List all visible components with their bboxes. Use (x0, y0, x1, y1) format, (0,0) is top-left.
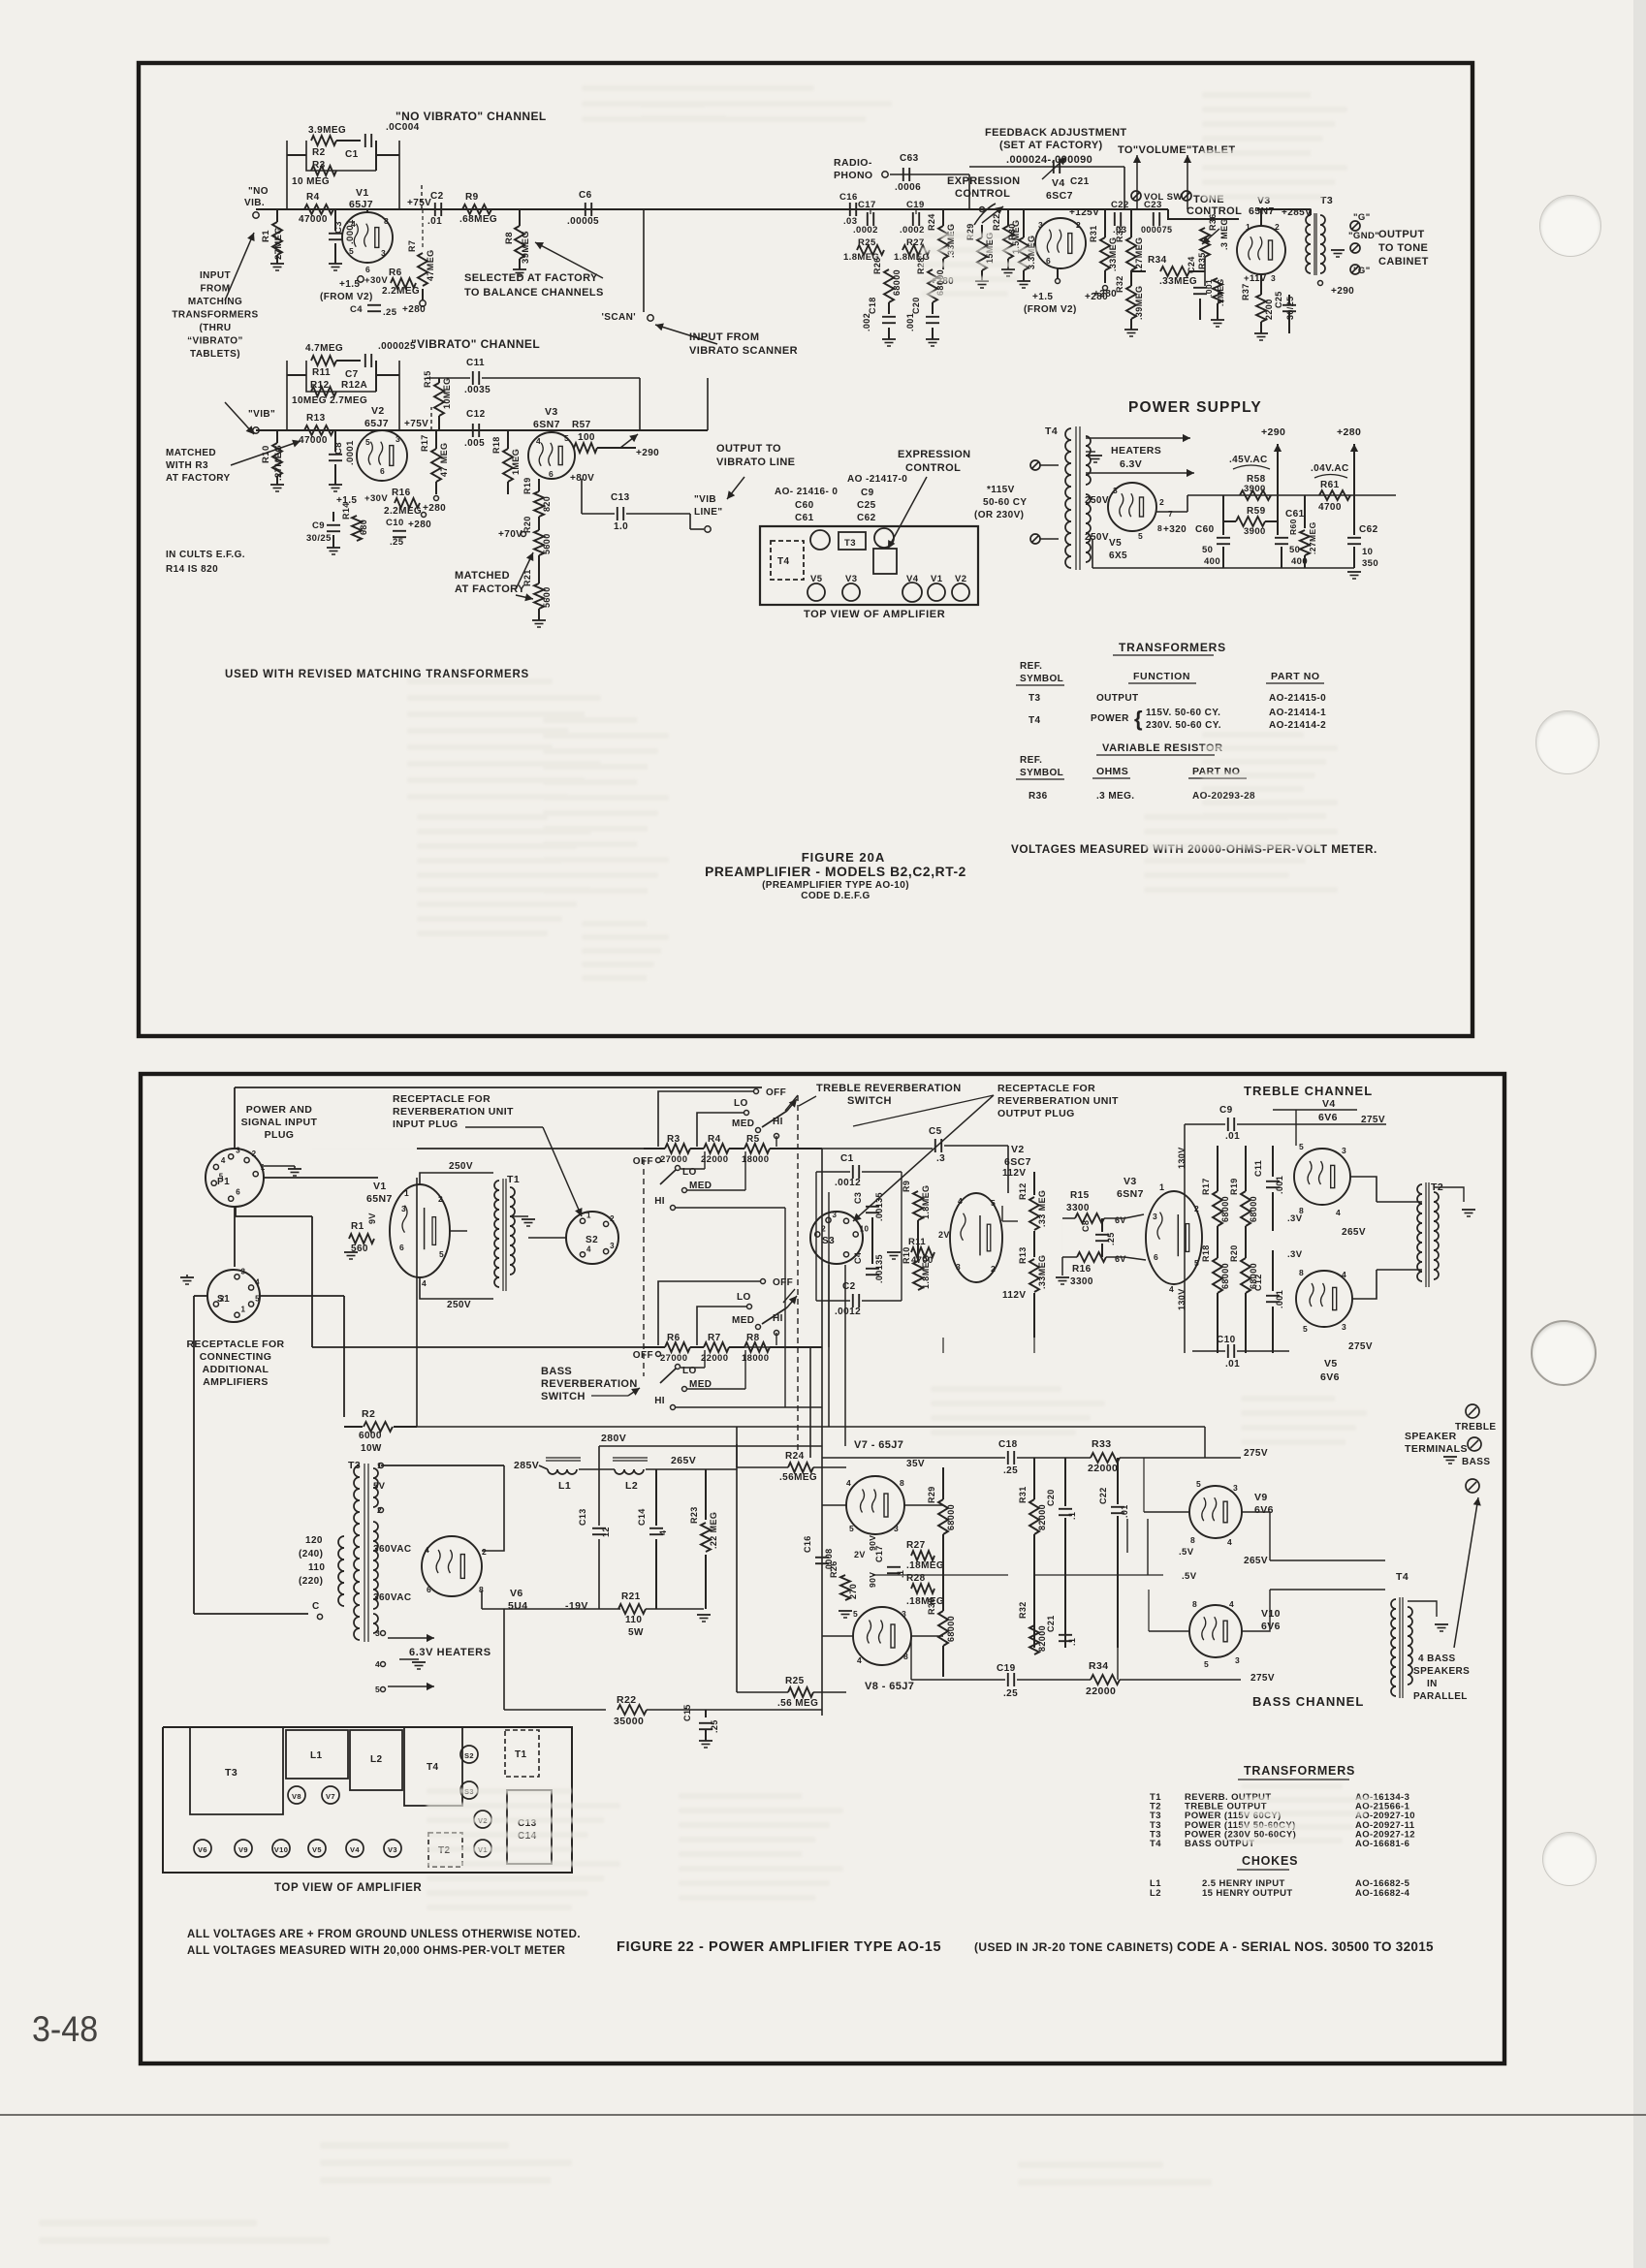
svg-text:265V: 265V (671, 1455, 696, 1466)
svg-text:C20: C20 (1046, 1489, 1056, 1506)
svg-text:C3: C3 (853, 1192, 863, 1204)
svg-text:L1: L1 (310, 1750, 323, 1761)
svg-text:.00135: .00135 (874, 1254, 884, 1283)
svg-text:.25: .25 (383, 307, 397, 318)
svg-text:R10: R10 (261, 445, 271, 463)
svg-text:.1: .1 (1067, 1512, 1077, 1520)
svg-text:V2: V2 (371, 405, 385, 417)
svg-text:V3: V3 (1124, 1176, 1137, 1187)
svg-text:4 BASS: 4 BASS (1418, 1654, 1456, 1664)
svg-text:R20: R20 (1229, 1244, 1239, 1262)
svg-text:1: 1 (241, 1306, 246, 1314)
svg-text:C61: C61 (795, 513, 814, 523)
svg-text:(USED IN JR-20 TONE CABINETS): (USED IN JR-20 TONE CABINETS) (974, 1940, 1173, 1954)
svg-text:8: 8 (1192, 1599, 1197, 1609)
svg-text:.56 MEG: .56 MEG (777, 1698, 818, 1709)
svg-text:C1: C1 (840, 1153, 854, 1164)
svg-text:22000: 22000 (701, 1154, 728, 1165)
svg-text:C13: C13 (578, 1508, 587, 1526)
svg-text:'SCAN': 'SCAN' (602, 312, 637, 323)
svg-text:PREAMPLIFIER - MODELS B2,C2: PREAMPLIFIER - MODELS B2,C2,RT-2 (705, 865, 966, 879)
svg-text:5: 5 (1303, 1324, 1308, 1334)
svg-text:R31: R31 (1089, 225, 1098, 242)
svg-text:5: 5 (349, 246, 354, 256)
svg-text:68000: 68000 (1220, 1196, 1230, 1222)
svg-text:R34: R34 (1089, 1660, 1108, 1672)
svg-text:5: 5 (1196, 1479, 1201, 1489)
svg-text:65J7: 65J7 (349, 199, 373, 210)
svg-text:5: 5 (564, 433, 569, 443)
svg-text:R36: R36 (1208, 213, 1218, 231)
svg-text:C5: C5 (929, 1126, 942, 1137)
svg-text:8: 8 (1299, 1268, 1304, 1277)
svg-text:3: 3 (401, 1204, 406, 1213)
svg-text:V9: V9 (1254, 1492, 1268, 1503)
svg-text:3900: 3900 (1244, 526, 1266, 537)
svg-text:3: 3 (610, 1242, 615, 1250)
svg-text:FUNCTION: FUNCTION (1133, 671, 1190, 682)
svg-text:CHOKES: CHOKES (1242, 1854, 1298, 1868)
svg-text:4: 4 (586, 1244, 591, 1253)
svg-text:R61: R61 (1320, 480, 1340, 490)
svg-text:50: 50 (1202, 545, 1213, 555)
svg-text:1: 1 (1246, 222, 1250, 232)
svg-text:TO BALANCE CHANNELS: TO BALANCE CHANNELS (464, 287, 604, 299)
svg-text:SWITCH: SWITCH (541, 1391, 586, 1402)
svg-text:TREBLE: TREBLE (1455, 1422, 1496, 1433)
svg-text:3: 3 (236, 1146, 240, 1154)
svg-text:C10: C10 (386, 518, 404, 528)
svg-text:68000: 68000 (1249, 1196, 1258, 1222)
svg-text:"VIBRATO" CHANNEL: "VIBRATO" CHANNEL (411, 337, 540, 351)
svg-text:V3: V3 (388, 1845, 397, 1854)
svg-text:R20: R20 (522, 516, 532, 533)
svg-text:R6: R6 (667, 1333, 681, 1343)
svg-text:"GND": "GND" (1348, 231, 1379, 241)
svg-text:C63: C63 (900, 153, 919, 164)
svg-text:5V: 5V (373, 1481, 386, 1492)
svg-text:RECEPTACLE FOR: RECEPTACLE FOR (393, 1093, 491, 1105)
svg-text:"VIB": "VIB" (248, 409, 275, 420)
svg-text:1: 1 (404, 1188, 409, 1198)
svg-text:R13: R13 (306, 413, 326, 424)
svg-text:TRANSFORMERS: TRANSFORMERS (172, 310, 258, 321)
svg-text:6: 6 (380, 466, 385, 476)
svg-text:6: 6 (549, 469, 554, 479)
svg-text:68000: 68000 (1220, 1263, 1230, 1289)
svg-text:6SC7: 6SC7 (1004, 1156, 1031, 1168)
svg-text:3300: 3300 (1066, 1203, 1090, 1213)
svg-text:35000: 35000 (614, 1716, 644, 1727)
svg-text:.001: .001 (1275, 1290, 1284, 1308)
svg-text:PLUG: PLUG (265, 1129, 295, 1141)
svg-text:REVERBERATION UNIT: REVERBERATION UNIT (393, 1106, 514, 1118)
svg-text:C1: C1 (345, 149, 359, 160)
svg-text:R13: R13 (1018, 1246, 1028, 1264)
svg-text:V4: V4 (350, 1845, 360, 1854)
svg-text:RADIO-: RADIO- (834, 157, 872, 169)
svg-text:FIGURE 22 - POWER AMPLIFIER: FIGURE 22 - POWER AMPLIFIER TYPE AO-15 (617, 1939, 941, 1955)
svg-text:3: 3 (902, 1609, 906, 1619)
svg-text:6000: 6000 (359, 1431, 382, 1441)
svg-text:3: 3 (396, 434, 400, 444)
svg-text:C20: C20 (911, 297, 921, 314)
svg-text:7: 7 (1168, 509, 1173, 519)
svg-text:275V: 275V (1361, 1115, 1385, 1125)
svg-text:RECEPTACLE FOR: RECEPTACLE FOR (186, 1339, 284, 1350)
svg-text:3: 3 (894, 1524, 899, 1533)
svg-text:820: 820 (542, 496, 552, 512)
svg-text:350: 350 (1362, 558, 1378, 569)
svg-text:8: 8 (1190, 1535, 1195, 1545)
svg-text:280V: 280V (601, 1433, 626, 1444)
svg-text:OUTPUT TO: OUTPUT TO (716, 443, 781, 455)
svg-text:6.3V HEATERS: 6.3V HEATERS (409, 1647, 491, 1658)
svg-text:V7 - 65J7: V7 - 65J7 (854, 1439, 903, 1451)
svg-text:.0002: .0002 (900, 225, 925, 236)
svg-text:PART NO: PART NO (1271, 671, 1320, 682)
svg-text:4: 4 (857, 1655, 862, 1665)
svg-text:LO: LO (734, 1098, 748, 1109)
svg-text:265V: 265V (1342, 1227, 1366, 1238)
svg-text:5: 5 (255, 1295, 260, 1304)
svg-text:30/25: 30/25 (306, 533, 332, 544)
svg-text:4: 4 (536, 436, 541, 446)
svg-text:R35: R35 (1197, 252, 1207, 269)
svg-text:R17: R17 (1201, 1178, 1211, 1195)
svg-text:3300: 3300 (1070, 1276, 1093, 1287)
svg-text:6SC7: 6SC7 (1046, 190, 1073, 202)
svg-text:10MEG: 10MEG (442, 377, 452, 409)
svg-text:R14 IS 820: R14 IS 820 (166, 564, 218, 575)
svg-text:.33MEG: .33MEG (1159, 276, 1197, 287)
svg-text:.0012: .0012 (835, 1307, 861, 1317)
svg-text:8: 8 (900, 1478, 904, 1488)
svg-text:3: 3 (1038, 220, 1043, 230)
svg-text:R60: R60 (1288, 519, 1298, 535)
svg-text:.01: .01 (1120, 1504, 1129, 1518)
svg-text:C8: C8 (1081, 1220, 1091, 1232)
svg-text:(FROM V2): (FROM V2) (320, 292, 373, 302)
svg-text:V5: V5 (1109, 538, 1122, 549)
svg-text:4: 4 (255, 1278, 260, 1287)
svg-text:.01: .01 (427, 216, 442, 227)
svg-text:V4: V4 (1052, 177, 1065, 189)
svg-text:POWER AND: POWER AND (246, 1104, 313, 1116)
svg-text:T1: T1 (507, 1174, 520, 1185)
svg-text:6: 6 (1046, 256, 1051, 266)
svg-text:R16: R16 (392, 488, 411, 498)
svg-text:3: 3 (1342, 1146, 1346, 1155)
svg-text:V3: V3 (545, 406, 558, 418)
svg-text:4700: 4700 (1318, 502, 1342, 513)
svg-text:.01: .01 (1225, 1131, 1240, 1142)
svg-text:OHMS: OHMS (1096, 766, 1128, 777)
svg-text:112V: 112V (1002, 1290, 1026, 1301)
svg-text:90V: 90V (868, 1535, 877, 1551)
svg-text:5U4: 5U4 (508, 1600, 527, 1612)
svg-text:3: 3 (1235, 1655, 1240, 1665)
svg-text:R31: R31 (1018, 1486, 1028, 1503)
svg-text:6V6: 6V6 (1318, 1112, 1338, 1123)
svg-text:270: 270 (848, 1584, 858, 1599)
svg-text:65J7: 65J7 (364, 418, 389, 429)
svg-text:(OR 230V): (OR 230V) (974, 510, 1024, 520)
svg-text:V9: V9 (238, 1845, 248, 1854)
svg-text:5: 5 (1194, 1258, 1199, 1268)
svg-text:8: 8 (903, 1652, 908, 1661)
svg-text:R25: R25 (785, 1676, 805, 1686)
svg-text:C18: C18 (868, 297, 877, 314)
svg-text:10: 10 (860, 1225, 870, 1234)
svg-text:3: 3 (1113, 486, 1118, 495)
svg-text:(PREAMPLIFIER TYPE AO-10): (PREAMPLIFIER TYPE AO-10) (762, 880, 909, 891)
svg-text:.001: .001 (1204, 279, 1214, 297)
svg-text:C2: C2 (842, 1281, 856, 1292)
svg-text:V10: V10 (1261, 1608, 1281, 1620)
svg-text:TOP VIEW OF AMPLIFIER: TOP VIEW OF AMPLIFIER (804, 609, 945, 620)
svg-text:3: 3 (1342, 1322, 1346, 1332)
svg-text:R5: R5 (746, 1134, 760, 1145)
svg-text:C22: C22 (1111, 200, 1129, 210)
svg-text:2.2MEG: 2.2MEG (384, 506, 422, 517)
svg-text:680: 680 (359, 520, 368, 535)
svg-text:OUTPUT PLUG: OUTPUT PLUG (997, 1108, 1075, 1119)
svg-text:.25: .25 (390, 537, 404, 548)
svg-text:C4: C4 (350, 304, 363, 315)
svg-text:C15: C15 (682, 1704, 692, 1721)
svg-text:AO-16681-6: AO-16681-6 (1355, 1839, 1409, 1849)
svg-text:5: 5 (853, 1609, 858, 1619)
svg-text:275V: 275V (1250, 1673, 1275, 1684)
svg-text:+11V: +11V (1244, 273, 1267, 284)
svg-text:4: 4 (1336, 1208, 1341, 1217)
svg-text:AO-21414-1: AO-21414-1 (1269, 708, 1326, 718)
svg-text:AO-16682-4: AO-16682-4 (1355, 1888, 1410, 1899)
svg-text:V1: V1 (356, 187, 369, 199)
svg-text:V5: V5 (1324, 1358, 1338, 1370)
svg-text:INPUT: INPUT (200, 270, 231, 281)
svg-text:L1: L1 (558, 1480, 571, 1492)
svg-text:6: 6 (236, 1188, 240, 1197)
svg-text:250V: 250V (1085, 532, 1109, 543)
svg-text:6V6: 6V6 (1320, 1371, 1340, 1383)
svg-text:TREBLE REVERBERATION: TREBLE REVERBERATION (816, 1083, 962, 1094)
svg-text:R18: R18 (1201, 1244, 1211, 1262)
svg-text:+280: +280 (1337, 426, 1361, 438)
svg-text:VIBRATO SCANNER: VIBRATO SCANNER (689, 345, 798, 357)
svg-text:FIGURE 20A: FIGURE 20A (802, 850, 886, 865)
svg-text:R32: R32 (1018, 1601, 1028, 1619)
svg-text:R22: R22 (992, 213, 1001, 231)
svg-text:18000: 18000 (742, 1353, 769, 1364)
svg-text:.000024-.000090: .000024-.000090 (1006, 154, 1092, 166)
svg-text:REVERBERATION UNIT: REVERBERATION UNIT (997, 1095, 1119, 1107)
svg-text:6: 6 (1154, 1252, 1158, 1262)
svg-text:6: 6 (365, 265, 370, 274)
svg-text:4: 4 (958, 1196, 963, 1206)
svg-text:4: 4 (1342, 1270, 1346, 1279)
svg-text:RECEPTACLE FOR: RECEPTACLE FOR (997, 1083, 1095, 1094)
svg-text:4: 4 (1227, 1537, 1232, 1547)
svg-text:3: 3 (1153, 1212, 1157, 1221)
svg-text:C10: C10 (1217, 1335, 1236, 1345)
svg-text:C19: C19 (906, 200, 925, 210)
svg-text:EXPRESSION: EXPRESSION (898, 449, 971, 460)
svg-text:3: 3 (381, 248, 386, 258)
svg-text:T4: T4 (427, 1762, 439, 1773)
svg-text:.27MEG: .27MEG (1134, 237, 1144, 271)
svg-text:.3 MEG: .3 MEG (1219, 218, 1229, 250)
svg-text:HI: HI (773, 1117, 783, 1127)
svg-text:R4: R4 (306, 192, 320, 203)
svg-text:ADDITIONAL: ADDITIONAL (203, 1364, 269, 1375)
svg-text:R2: R2 (362, 1408, 375, 1420)
svg-text:6: 6 (427, 1585, 431, 1594)
svg-text:C19: C19 (997, 1663, 1016, 1674)
svg-text:3: 3 (1271, 273, 1276, 283)
svg-text:2: 2 (482, 1547, 487, 1557)
svg-text:R11: R11 (312, 367, 331, 378)
svg-text:INPUT FROM: INPUT FROM (689, 331, 759, 343)
svg-text:C12: C12 (466, 409, 486, 420)
svg-text:LINE": LINE" (694, 507, 723, 518)
svg-text:R24: R24 (927, 213, 936, 231)
svg-text:.18MEG: .18MEG (906, 1560, 944, 1571)
svg-text:1: 1 (261, 1163, 266, 1172)
svg-text:47000: 47000 (299, 214, 328, 225)
svg-text:R16: R16 (1072, 1264, 1092, 1275)
svg-text:1.8MEG: 1.8MEG (921, 1185, 931, 1219)
svg-text:1.8MEG: 1.8MEG (921, 1255, 931, 1289)
svg-text:V6: V6 (510, 1588, 523, 1599)
svg-text:C9: C9 (312, 520, 325, 531)
svg-text:R14: R14 (341, 502, 351, 520)
svg-text:C62: C62 (1359, 524, 1378, 535)
svg-text:TRANSFORMERS: TRANSFORMERS (1244, 1764, 1355, 1778)
svg-text:4: 4 (375, 1659, 380, 1669)
svg-text:R15: R15 (1070, 1190, 1090, 1201)
svg-text:3: 3 (1233, 1483, 1238, 1493)
svg-text:18000: 18000 (742, 1154, 769, 1165)
svg-text:6V6: 6V6 (1254, 1504, 1274, 1516)
svg-text:8: 8 (1157, 523, 1162, 533)
svg-text:110: 110 (625, 1615, 642, 1625)
svg-text:.002: .002 (862, 313, 871, 331)
svg-text:R26: R26 (872, 257, 882, 274)
svg-text:+290: +290 (1261, 426, 1285, 438)
svg-text:SPEAKERS: SPEAKERS (1413, 1666, 1470, 1677)
svg-text:R19: R19 (1229, 1178, 1239, 1195)
svg-text:MATCHED: MATCHED (166, 448, 216, 458)
svg-text:.1: .1 (1067, 1638, 1077, 1646)
svg-text:6X5: 6X5 (1109, 551, 1127, 561)
svg-text:2: 2 (252, 1150, 257, 1158)
svg-text:R24: R24 (785, 1451, 805, 1462)
svg-text:CABINET: CABINET (1378, 256, 1429, 268)
svg-text:V8 - 65J7: V8 - 65J7 (865, 1681, 914, 1692)
svg-text:5: 5 (1138, 531, 1143, 541)
svg-text:C17: C17 (858, 200, 876, 210)
svg-text:.33 MEG: .33 MEG (1037, 1190, 1047, 1227)
svg-text:T4: T4 (1045, 425, 1058, 437)
svg-text:V1: V1 (373, 1181, 387, 1192)
svg-text:BASS CHANNEL: BASS CHANNEL (1252, 1694, 1364, 1709)
svg-text:C4: C4 (853, 1252, 863, 1264)
svg-text:V7: V7 (326, 1792, 335, 1801)
svg-text:CONNECTING: CONNECTING (200, 1351, 272, 1363)
svg-text:R59: R59 (1247, 506, 1266, 517)
svg-text:4: 4 (1169, 1284, 1174, 1294)
svg-text:.3: .3 (936, 1153, 945, 1164)
svg-text:50-60 CY: 50-60 CY (983, 497, 1027, 508)
svg-text:68000: 68000 (946, 1616, 956, 1642)
svg-text:6: 6 (399, 1243, 404, 1252)
svg-text:REF.: REF. (1020, 661, 1042, 672)
svg-text:+290: +290 (636, 448, 659, 458)
svg-text:T4: T4 (1150, 1839, 1161, 1849)
svg-text:250V: 250V (1085, 495, 1109, 506)
svg-text:ALL VOLTAGES ARE + FROM GROUND: ALL VOLTAGES ARE + FROM GROUND UNLESS OT… (187, 1929, 581, 1940)
svg-text:.1MEG: .1MEG (1216, 279, 1225, 306)
svg-text:C9: C9 (1219, 1105, 1233, 1116)
svg-text:50: 50 (1289, 545, 1300, 555)
svg-text:OFF: OFF (766, 1087, 786, 1098)
svg-text:4.7MEG: 4.7MEG (305, 343, 343, 354)
svg-text:C11: C11 (466, 358, 485, 368)
svg-text:(220): (220) (299, 1576, 323, 1587)
svg-text:AO-21414-2: AO-21414-2 (1269, 720, 1326, 731)
svg-text:V4: V4 (1322, 1098, 1336, 1110)
svg-text:68000: 68000 (946, 1504, 956, 1530)
svg-text:IN CULTS E.F.G.: IN CULTS E.F.G. (166, 550, 245, 560)
svg-text:C9: C9 (861, 488, 874, 498)
svg-text:8: 8 (384, 216, 389, 226)
svg-text:C14: C14 (637, 1508, 647, 1526)
svg-text:WITH R3: WITH R3 (166, 460, 208, 471)
svg-text:5: 5 (219, 1173, 224, 1181)
svg-text:AMPLIFIERS: AMPLIFIERS (203, 1376, 269, 1388)
svg-text:27000: 27000 (660, 1154, 687, 1165)
svg-text:T3: T3 (1029, 693, 1041, 704)
svg-text:5: 5 (375, 1685, 380, 1694)
svg-text:.3 MEG.: .3 MEG. (1096, 791, 1134, 802)
svg-text:2: 2 (1275, 222, 1280, 232)
svg-text:R26: R26 (829, 1560, 839, 1578)
svg-text:HI: HI (654, 1396, 665, 1406)
svg-text:T3: T3 (225, 1767, 237, 1779)
svg-text:R18: R18 (491, 436, 501, 454)
svg-text:R23: R23 (689, 1506, 699, 1524)
svg-text:1.0: 1.0 (614, 521, 628, 532)
svg-text:POWER SUPPLY: POWER SUPPLY (1128, 399, 1262, 416)
svg-text:VIB.: VIB. (244, 198, 265, 208)
svg-text:L2: L2 (625, 1480, 638, 1492)
svg-text:110: 110 (308, 1562, 325, 1573)
svg-text:SYMBOL: SYMBOL (1020, 768, 1063, 778)
svg-text:.56MEG: .56MEG (779, 1472, 817, 1483)
svg-text:.1: .1 (896, 1570, 905, 1578)
svg-text:CODE D.E.F.G: CODE D.E.F.G (801, 891, 870, 901)
svg-text:R8: R8 (504, 232, 515, 244)
svg-text:C2: C2 (430, 191, 444, 202)
svg-text:T1: T1 (515, 1749, 527, 1760)
svg-text:360VAC: 360VAC (373, 1592, 411, 1603)
svg-text:.25: .25 (710, 1719, 719, 1733)
svg-text:115V. 50-60 CY.: 115V. 50-60 CY. (1146, 708, 1220, 718)
svg-text:ALL VOLTAGES MEASURED WITH 20,: ALL VOLTAGES MEASURED WITH 20,000 OHMS-P… (187, 1945, 566, 1957)
svg-text:.001: .001 (1275, 1176, 1284, 1194)
